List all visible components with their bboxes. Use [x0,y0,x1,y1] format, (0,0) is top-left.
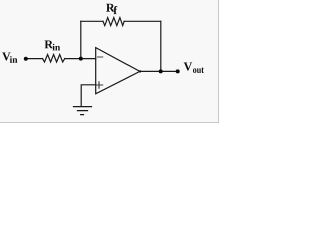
border right [218,0,219,123]
node op-amp output tip [139,70,141,72]
op-amp U1 triangle [96,48,140,94]
wire feedback right vertical [160,21,162,71]
node Vout terminal dot [176,69,180,73]
op-amp plus sign [96,82,102,88]
border bottom [0,122,219,123]
label Rin [45,40,54,48]
wire feedback left vertical [80,21,82,58]
label Rf [106,4,115,12]
node Vin terminal dot [24,57,28,61]
node junction output [159,69,163,73]
wire noninverting input [81,85,96,106]
wire feedback top left [81,20,103,22]
wire Rin to inverting input [65,58,96,60]
label Vin [2,52,10,60]
node junction inverting input [79,57,83,61]
op-amp minus sign [98,56,103,58]
resistor Rin [43,55,65,63]
wire output [140,70,178,72]
wire Vin to Rin [26,58,43,60]
label Vout [184,63,192,71]
wire feedback top right [124,20,161,22]
ground [74,107,92,115]
resistor Rf [103,18,124,26]
